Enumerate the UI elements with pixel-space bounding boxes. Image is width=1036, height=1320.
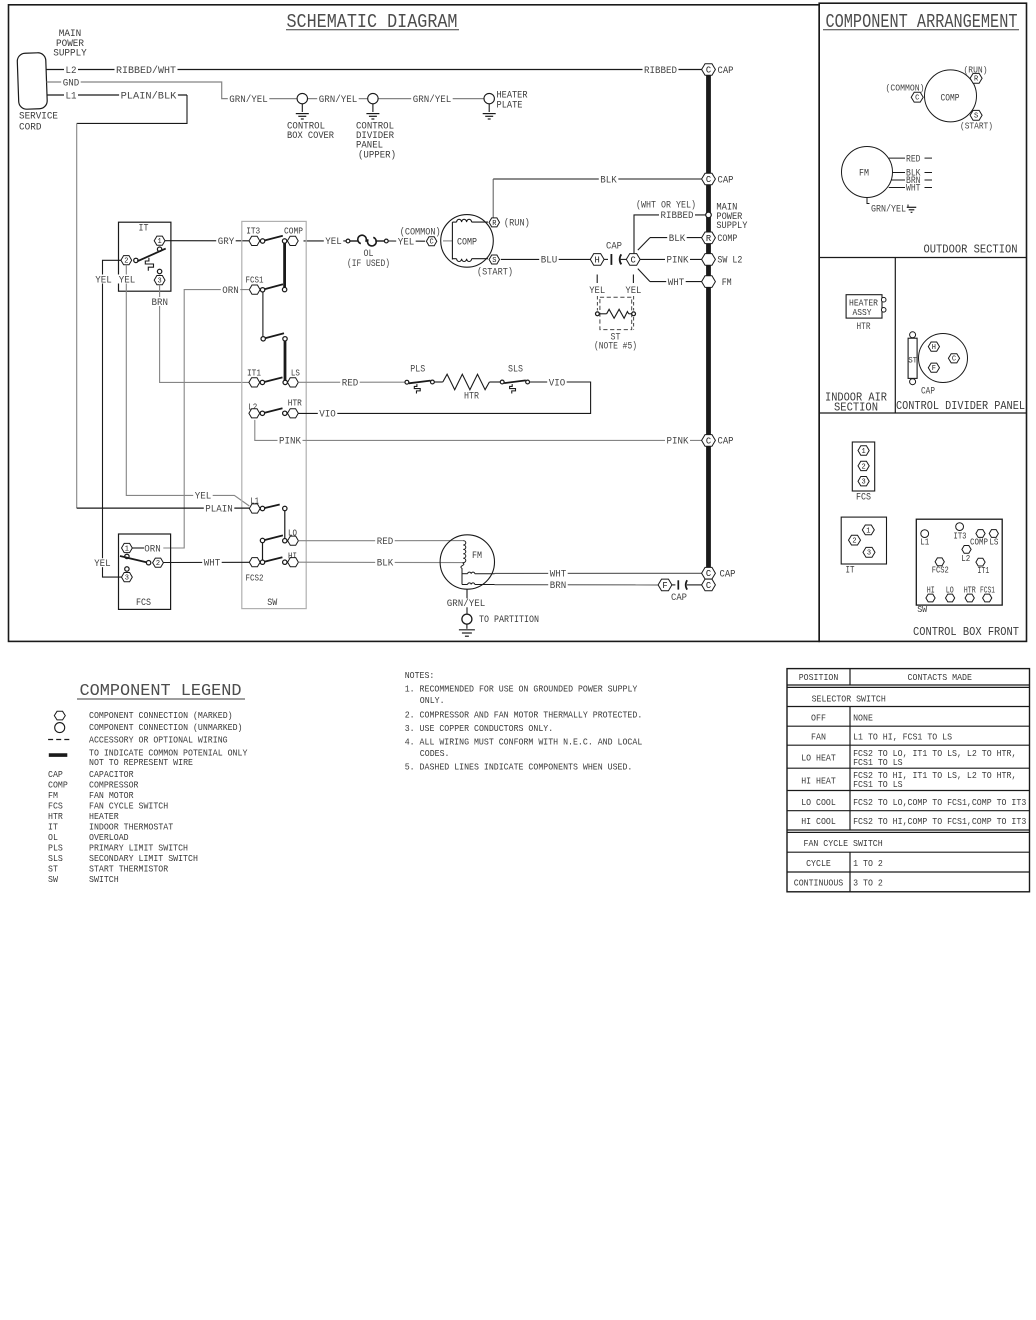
svg-text:LO COOL: LO COOL (801, 797, 836, 808)
svg-text:(IF USED): (IF USED) (347, 258, 390, 270)
start thermistor ST (arrangement) (908, 332, 917, 385)
svg-text:GRY: GRY (218, 237, 235, 248)
svg-text:PLAIN/BLK: PLAIN/BLK (121, 90, 177, 102)
svg-text:SW: SW (48, 874, 58, 885)
svg-text:OFF: OFF (811, 712, 826, 723)
legend circle symbol (55, 723, 65, 733)
fan motor FM (440, 535, 494, 589)
svg-text:RED: RED (342, 379, 359, 390)
svg-text:2: 2 (156, 560, 160, 568)
svg-text:COMP: COMP (970, 536, 988, 547)
wire YEL IT2 to FCS3 (93, 260, 122, 577)
svg-text:S: S (492, 257, 496, 265)
svg-text:C: C (429, 239, 433, 247)
section divider bottom (819, 412, 1026, 414)
node C CAP second (702, 173, 734, 186)
FM lead BLK (893, 169, 933, 180)
svg-text:5. DASHED LINES INDICATE COMPO: 5. DASHED LINES INDICATE COMPONENTS WHEN… (405, 761, 633, 772)
svg-text:CAP: CAP (48, 769, 63, 780)
notes (405, 670, 643, 772)
node MAIN POWER SUPPLY (706, 203, 748, 232)
svg-text:BOX COVER: BOX COVER (287, 131, 334, 142)
svg-text:FM: FM (722, 278, 732, 289)
legend dashed wire (48, 739, 72, 741)
svg-text:FCS2 TO HI,COMP TO FCS1,COMP T: FCS2 TO HI,COMP TO FCS1,COMP TO IT3 (853, 816, 1026, 827)
wire PLAIN vertical (76, 123, 78, 508)
svg-text:C: C (706, 581, 711, 591)
IT terminal 1 (154, 236, 165, 251)
svg-text:PRIMARY LIMIT SWITCH: PRIMARY LIMIT SWITCH (89, 843, 188, 854)
svg-text:CONTACTS MADE: CONTACTS MADE (908, 672, 973, 683)
svg-text:FCS: FCS (856, 492, 871, 503)
SW terminal L2 (248, 402, 264, 418)
svg-text:FM: FM (48, 790, 58, 801)
svg-text:3: 3 (867, 550, 871, 558)
node C CAP top (702, 64, 734, 77)
svg-text:FAN MOTOR: FAN MOTOR (89, 790, 134, 801)
svg-text:RED: RED (906, 154, 921, 165)
svg-text:FM: FM (472, 551, 482, 562)
front SW HTR (964, 585, 976, 602)
SW terminal FCS2 (246, 558, 265, 584)
svg-text:HTR: HTR (464, 392, 479, 403)
svg-text:CONTROL BOX FRONT: CONTROL BOX FRONT (913, 626, 1019, 639)
svg-text:PLS: PLS (48, 843, 63, 854)
SW terminal IT3 (246, 227, 265, 246)
SW blade FCS1 (264, 284, 283, 289)
front SW FCS2 (932, 558, 949, 576)
SW blade mid (265, 333, 284, 338)
fan cycle switch FCS box (119, 534, 171, 609)
svg-text:SW: SW (917, 604, 927, 615)
svg-text:CYCLE: CYCLE (806, 858, 831, 869)
SW common bar COMP-FCS1 (282, 243, 286, 292)
label CONTROL BOX FRONT (913, 626, 1019, 639)
wire YEL IT2 to L1 (117, 265, 249, 506)
wire WHT run-cap to bus (638, 269, 702, 289)
svg-text:SW L2: SW L2 (717, 256, 742, 267)
svg-text:FAN CYCLE SWITCH: FAN CYCLE SWITCH (804, 838, 883, 849)
front SW COMP (970, 530, 988, 548)
SW blade FCS2-HI (264, 557, 282, 562)
svg-text:INDOOR THERMOSTAT: INDOOR THERMOSTAT (89, 822, 173, 833)
terminal R (RUN) (489, 179, 530, 230)
label OUTDOOR SECTION (924, 244, 1018, 257)
svg-text:COMP: COMP (48, 780, 68, 791)
svg-text:SW: SW (267, 598, 277, 609)
svg-text:COMPONENT CONNECTION (MARKED): COMPONENT CONNECTION (MARKED) (89, 710, 233, 721)
svg-text:YEL: YEL (625, 286, 641, 297)
svg-text:1. RECOMMENDED FOR USE ON GROU: 1. RECOMMENDED FOR USE ON GROUNDED POWER… (405, 684, 638, 695)
svg-text:SUPPLY: SUPPLY (716, 221, 747, 232)
label INDOOR AIR SECTION (825, 391, 887, 414)
svg-text:(RUN): (RUN) (504, 218, 530, 230)
front FCS box (852, 442, 874, 503)
FM lead WHT (889, 184, 932, 195)
outdoor section divider (819, 257, 1026, 259)
svg-text:C: C (952, 356, 956, 364)
svg-text:CAP: CAP (671, 593, 687, 604)
svg-text:CODES.: CODES. (420, 748, 450, 759)
svg-text:LS: LS (291, 368, 300, 378)
SW blade L2-HTR (264, 408, 282, 413)
svg-text:3: 3 (125, 574, 129, 582)
SW terminal IT1 (247, 368, 265, 387)
svg-text:FCS2: FCS2 (246, 574, 264, 584)
svg-text:1: 1 (157, 238, 161, 246)
wire VIO return to HTR (298, 378, 590, 421)
overload OL (304, 235, 426, 270)
node SW L2 (702, 254, 743, 267)
svg-text:SERVICE: SERVICE (19, 111, 58, 122)
wire PLAIN/BLK drop (77, 95, 187, 123)
svg-text:C: C (706, 569, 711, 579)
svg-text:GRN/YEL: GRN/YEL (447, 598, 486, 610)
svg-text:CAPACITOR: CAPACITOR (89, 769, 134, 780)
terminal S (START) (477, 255, 513, 279)
svg-text:HI COOL: HI COOL (801, 816, 836, 827)
svg-text:BRN: BRN (550, 581, 567, 592)
svg-text:C: C (631, 255, 636, 265)
SW blade IT1-LS (264, 377, 282, 382)
svg-text:YEL: YEL (195, 492, 212, 503)
svg-text:1 TO 2: 1 TO 2 (853, 858, 883, 869)
svg-text:SECTION: SECTION (834, 402, 878, 415)
svg-text:RIBBED: RIBBED (661, 211, 694, 222)
SW terminal HI (283, 552, 299, 567)
arrangement fan motor FM (842, 147, 893, 198)
svg-text:3: 3 (157, 277, 161, 285)
label CONTROL DIVIDER PANEL (896, 400, 1025, 413)
SW contact/link mid-FCS2 (260, 538, 264, 560)
wire YEL stub under C (625, 275, 641, 298)
svg-text:PINK: PINK (279, 437, 301, 448)
svg-text:BLK: BLK (377, 559, 394, 570)
svg-text:FM: FM (859, 169, 869, 180)
svg-text:H: H (932, 344, 936, 352)
wire RED LS to PLS (298, 378, 405, 390)
svg-text:3. USE COPPER CONDUCTORS ONLY.: 3. USE COPPER CONDUCTORS ONLY. (405, 723, 554, 734)
SW terminal COMP (282, 227, 303, 246)
label MAIN POWER SUPPLY (left) (53, 29, 87, 60)
svg-text:BRN: BRN (152, 298, 169, 309)
section divider vertical (894, 258, 896, 414)
wire BRN IT3 to IT1 (150, 285, 249, 383)
svg-text:COMP: COMP (717, 234, 737, 245)
svg-text:3 TO 2: 3 TO 2 (853, 878, 883, 889)
svg-text:PLATE: PLATE (497, 101, 523, 112)
wire RED LO to FM (298, 536, 463, 548)
svg-text:SWITCH: SWITCH (89, 874, 119, 885)
svg-text:ORN: ORN (144, 544, 161, 555)
svg-text:ASSY: ASSY (853, 307, 872, 318)
table grid (787, 669, 1030, 892)
capacitor CAP (arrangement) (919, 334, 968, 398)
svg-text:FAN: FAN (811, 732, 826, 743)
node C CAP fan (bottom) (702, 579, 716, 591)
svg-text:BLK: BLK (600, 175, 617, 186)
wire YEL stub under H (589, 275, 605, 298)
svg-text:LO HEAT: LO HEAT (801, 753, 836, 764)
ground CONTROL DIVIDER PANEL (356, 93, 396, 161)
wire BLK to cap (493, 175, 702, 187)
svg-text:1: 1 (125, 545, 129, 553)
svg-text:START THERMISTOR: START THERMISTOR (89, 864, 168, 875)
svg-text:CONTINUOUS: CONTINUOUS (794, 878, 844, 889)
legend hex symbol (54, 711, 65, 720)
SW blade L1 (264, 505, 279, 509)
wire BLK HI to FM (298, 558, 462, 570)
wire GND (47, 78, 490, 99)
svg-text:(WHT OR YEL): (WHT OR YEL) (636, 200, 696, 212)
svg-text:L1: L1 (920, 537, 929, 548)
svg-text:2. COMPRESSOR AND FAN MOTOR TH: 2. COMPRESSOR AND FAN MOTOR THERMALLY PR… (405, 710, 643, 721)
svg-text:ACCESSORY OR OPTIONAL WIRING: ACCESSORY OR OPTIONAL WIRING (89, 735, 228, 746)
svg-text:CORD: CORD (19, 122, 42, 133)
service cord (17, 53, 47, 110)
wire PINK run-cap to bus (640, 255, 702, 267)
svg-text:COMPRESSOR: COMPRESSOR (89, 780, 139, 791)
svg-text:(COMMON): (COMMON) (886, 82, 925, 93)
svg-text:SELECTOR SWITCH: SELECTOR SWITCH (812, 693, 886, 704)
svg-text:CAP: CAP (921, 387, 935, 398)
svg-text:IT3: IT3 (954, 530, 967, 541)
svg-text:WHT: WHT (906, 184, 921, 195)
svg-text:HTR: HTR (288, 399, 303, 409)
wire ORN FCS1 to FCS-1 (143, 285, 250, 555)
svg-text:F: F (662, 581, 667, 591)
compressor COMP (441, 215, 494, 268)
SW terminal LO (283, 529, 299, 546)
svg-text:COMPONENT LEGEND: COMPONENT LEGEND (80, 682, 242, 701)
terminal C (COMMON) (400, 226, 441, 246)
svg-text:SECONDARY LIMIT SWITCH: SECONDARY LIMIT SWITCH (89, 853, 198, 864)
svg-text:C: C (706, 65, 711, 75)
svg-text:(START): (START) (477, 267, 513, 279)
svg-text:2: 2 (124, 258, 128, 266)
front SW LO (946, 585, 955, 602)
svg-text:2: 2 (852, 537, 856, 545)
front SW L2 (961, 546, 971, 564)
SW terminal FCS1 (246, 276, 265, 295)
front IT box (841, 517, 886, 577)
svg-text:COMPONENT CONNECTION (UNMARKED: COMPONENT CONNECTION (UNMARKED) (89, 722, 243, 733)
svg-text:IT3: IT3 (246, 227, 260, 237)
svg-text:GRN/YEL: GRN/YEL (319, 94, 358, 106)
svg-text:IT1: IT1 (247, 368, 261, 378)
svg-text:RIBBED: RIBBED (644, 66, 677, 77)
front SW IT1 (976, 558, 990, 576)
IT terminal 2 (121, 256, 138, 266)
IT switch blade (137, 249, 165, 262)
SW contact/link L1-LO (283, 506, 287, 539)
wire L1 PLAIN/BLK (47, 90, 188, 102)
front SW FCS1 (980, 585, 995, 602)
svg-text:FCS2 TO LO,COMP TO FCS1,COMP T: FCS2 TO LO,COMP TO FCS1,COMP TO IT3 (853, 797, 1026, 808)
arrangement compressor COMP (925, 70, 977, 122)
FM lead RED (889, 154, 932, 165)
ground HEATER PLATE (483, 91, 528, 120)
svg-text:CAP: CAP (720, 570, 736, 581)
svg-text:HEATER: HEATER (89, 811, 119, 822)
svg-text:CONTROL DIVIDER PANEL: CONTROL DIVIDER PANEL (896, 400, 1025, 413)
svg-text:NOTES:: NOTES: (405, 670, 435, 681)
svg-text:CAP: CAP (718, 66, 734, 77)
node C CAP pink (702, 435, 734, 448)
FCS terminal 1 (122, 543, 133, 558)
svg-text:COMP: COMP (457, 237, 477, 248)
svg-text:F: F (932, 365, 936, 373)
svg-text:H: H (595, 255, 600, 265)
svg-text:(NOTE #5): (NOTE #5) (594, 340, 637, 352)
svg-text:CAP: CAP (718, 437, 734, 448)
svg-text:BLU: BLU (541, 256, 558, 267)
svg-text:IT: IT (48, 822, 58, 833)
svg-text:TO PARTITION: TO PARTITION (479, 615, 539, 626)
svg-text:IT: IT (846, 566, 855, 577)
node C CAP fan (top) (702, 567, 736, 580)
svg-text:FCS: FCS (136, 598, 151, 609)
wire BLU S to H (501, 255, 591, 267)
svg-text:L1: L1 (66, 91, 77, 102)
svg-text:FCS1 TO LS: FCS1 TO LS (853, 757, 903, 768)
svg-text:POSITION: POSITION (799, 672, 839, 683)
SW blade IT3-COMP (264, 236, 282, 241)
svg-text:PLS: PLS (410, 365, 425, 376)
svg-text:(UPPER): (UPPER) (358, 149, 396, 161)
border frame (schematic sheet) (9, 5, 820, 642)
wire PLAIN to L1 (77, 504, 250, 516)
svg-text:BLK: BLK (669, 234, 686, 245)
wire PINK L2 to bus (255, 420, 702, 448)
svg-text:YEL: YEL (119, 275, 136, 286)
svg-text:RIBBED/WHT: RIBBED/WHT (116, 65, 176, 77)
title COMPONENT LEGEND (77, 682, 245, 701)
svg-text:NOT TO REPRESENT WIRE: NOT TO REPRESENT WIRE (89, 757, 193, 768)
front SW HI (926, 585, 935, 602)
svg-text:FCS: FCS (48, 801, 63, 812)
node R COMP (702, 232, 738, 245)
svg-text:WHT: WHT (668, 278, 685, 289)
svg-text:PLAIN: PLAIN (205, 504, 233, 515)
start thermistor ST (594, 296, 637, 352)
ground TO PARTITION (445, 589, 539, 636)
svg-text:SLS: SLS (48, 853, 63, 864)
wire RIBBED (WHT OR YEL) (634, 200, 706, 254)
svg-text:IT1: IT1 (977, 565, 989, 576)
svg-text:FCS2: FCS2 (932, 564, 949, 575)
SW mid contact and bar to LS (283, 337, 287, 381)
svg-text:(START): (START) (960, 120, 993, 131)
svg-text:NONE: NONE (853, 712, 873, 723)
svg-text:ST: ST (48, 864, 58, 875)
label SERVICE CORD (19, 111, 58, 133)
svg-text:HTR: HTR (48, 811, 63, 822)
legend thick bar (49, 753, 68, 757)
title SCHEMATIC DIAGRAM (286, 11, 459, 33)
legend entries (48, 710, 248, 885)
svg-text:HTR: HTR (857, 322, 871, 333)
border frame (component arrangement panel) (819, 3, 1026, 641)
label GRN/YEL 2 (317, 94, 359, 106)
SW blade LO (264, 535, 283, 540)
svg-text:GRN/YEL: GRN/YEL (871, 203, 906, 215)
limit switch PLS (405, 365, 434, 394)
table text (794, 672, 1027, 889)
svg-text:YEL: YEL (398, 237, 415, 248)
svg-text:ORN: ORN (222, 286, 239, 297)
svg-text:L1 TO HI, FCS1 TO LS: L1 TO HI, FCS1 TO LS (853, 732, 952, 743)
svg-text:OUTDOOR SECTION: OUTDOOR SECTION (924, 244, 1018, 257)
svg-text:YEL: YEL (589, 286, 605, 297)
svg-text:FAN CYCLE SWITCH: FAN CYCLE SWITCH (89, 801, 168, 812)
wire WHT FCS2 to SW (163, 558, 249, 570)
svg-text:2: 2 (861, 463, 865, 471)
label GRN/YEL 1 (228, 94, 269, 106)
svg-text:1: 1 (861, 448, 865, 456)
FCS blade (120, 556, 149, 563)
front SW LS (989, 530, 998, 548)
ground CONTROL BOX COVER (287, 93, 334, 142)
FM lead GRN/YEL with ground (867, 198, 916, 216)
fan capacitor CAP F-C (658, 579, 702, 604)
bus common potential line (706, 75, 711, 569)
svg-text:YEL: YEL (95, 275, 112, 286)
svg-text:GND: GND (63, 78, 80, 89)
svg-text:HI HEAT: HI HEAT (801, 776, 836, 787)
svg-text:LS: LS (989, 536, 998, 547)
svg-text:WHT: WHT (550, 570, 567, 581)
svg-text:IT: IT (139, 223, 149, 234)
svg-text:C: C (915, 95, 919, 103)
front SW IT3 (954, 523, 967, 542)
wire WHT FM to bus (495, 569, 703, 581)
SW terminal LS (283, 368, 300, 387)
svg-text:COMP: COMP (941, 93, 960, 104)
svg-text:RED: RED (377, 537, 394, 548)
IT terminal 3 (154, 269, 165, 285)
svg-text:GRN/YEL: GRN/YEL (229, 94, 268, 106)
FCS terminal 3 (122, 567, 133, 583)
svg-text:FCS1: FCS1 (246, 276, 264, 286)
svg-text:SUPPLY: SUPPLY (53, 48, 87, 59)
heater HTR element (434, 374, 500, 402)
FM lead BRN (891, 176, 932, 187)
svg-text:1: 1 (866, 527, 870, 535)
svg-text:CAP: CAP (606, 241, 622, 252)
FCS wire ORN inside (132, 547, 144, 549)
svg-text:FCS1 TO LS: FCS1 TO LS (853, 779, 903, 790)
svg-text:ONLY.: ONLY. (420, 695, 445, 706)
limit switch SLS (500, 365, 529, 394)
IT bimetal element (145, 258, 153, 271)
svg-text:L2: L2 (66, 66, 77, 77)
arrangement terminal S (960, 110, 993, 131)
FCS terminal 2 (146, 558, 163, 568)
svg-text:SLS: SLS (508, 365, 523, 376)
svg-text:OVERLOAD: OVERLOAD (89, 832, 129, 843)
capacitor CAP H-C (590, 241, 640, 265)
front SW L1 (920, 530, 929, 548)
svg-text:VIO: VIO (319, 410, 336, 421)
svg-text:PINK: PINK (667, 437, 689, 448)
svg-text:GRN/YEL: GRN/YEL (413, 94, 452, 106)
svg-text:ST: ST (908, 357, 917, 366)
SW terminal HTR (283, 399, 303, 418)
svg-text:C: C (706, 175, 711, 185)
svg-text:VIO: VIO (549, 378, 566, 389)
svg-text:C: C (706, 436, 711, 446)
